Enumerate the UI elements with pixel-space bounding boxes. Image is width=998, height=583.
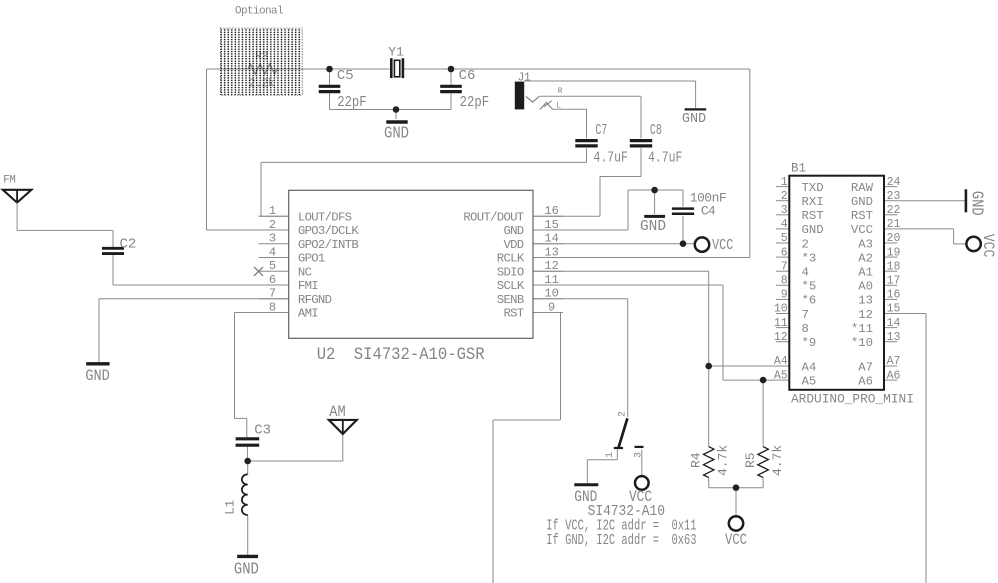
svg-text:2: 2 (618, 411, 629, 417)
svg-text:C8: C8 (650, 123, 662, 139)
svg-text:8: 8 (802, 322, 809, 336)
svg-text:5: 5 (269, 259, 276, 273)
svg-text:14: 14 (544, 232, 558, 246)
svg-text:A3: A3 (858, 237, 873, 251)
svg-text:6: 6 (269, 273, 276, 287)
svg-text:VCC: VCC (978, 234, 995, 258)
svg-text:R5: R5 (743, 452, 758, 468)
svg-text:U2: U2 (317, 345, 336, 365)
svg-text:ARDUINO_PRO_MINI: ARDUINO_PRO_MINI (791, 392, 914, 407)
svg-text:7: 7 (802, 308, 809, 322)
svg-text:16: 16 (544, 204, 558, 218)
svg-text:22pF: 22pF (460, 95, 489, 111)
svg-text:AM: AM (329, 404, 345, 421)
svg-text:GPO3/DCLK: GPO3/DCLK (298, 224, 359, 238)
svg-text:17: 17 (887, 275, 901, 288)
svg-text:5: 5 (781, 232, 788, 245)
svg-text:A6: A6 (858, 374, 873, 388)
svg-text:FM: FM (3, 174, 15, 186)
svg-text:3: 3 (781, 204, 788, 217)
svg-text:4.7uF: 4.7uF (594, 149, 628, 166)
svg-text:*10: *10 (851, 336, 873, 350)
svg-text:15: 15 (544, 218, 558, 232)
svg-text:AMI: AMI (298, 307, 318, 321)
svg-text:GND: GND (802, 223, 824, 237)
svg-text:4: 4 (781, 218, 788, 231)
svg-text:L1: L1 (224, 500, 238, 515)
svg-text:GND: GND (967, 191, 986, 216)
svg-text:GND: GND (384, 123, 409, 143)
svg-text:FMI: FMI (298, 279, 318, 293)
svg-text:21: 21 (887, 218, 901, 231)
svg-text:13: 13 (544, 245, 558, 259)
svg-text:A6: A6 (887, 369, 901, 382)
svg-text:GND: GND (851, 195, 873, 209)
svg-text:R: R (558, 87, 563, 96)
svg-text:A2: A2 (858, 251, 873, 265)
svg-text:GND: GND (85, 368, 110, 385)
svg-text:RCLK: RCLK (497, 252, 525, 266)
svg-text:16: 16 (887, 289, 901, 302)
svg-text:SDIO: SDIO (497, 265, 524, 279)
svg-text:GND: GND (234, 559, 259, 578)
svg-text:A4: A4 (774, 355, 788, 368)
svg-text:1: 1 (269, 204, 276, 218)
svg-text:8: 8 (269, 300, 276, 314)
svg-text:1: 1 (605, 452, 616, 458)
svg-text:3: 3 (634, 452, 645, 458)
svg-text:4.7k: 4.7k (770, 445, 785, 476)
svg-text:7: 7 (269, 287, 276, 301)
svg-text:SCLK: SCLK (497, 279, 525, 293)
svg-text:1: 1 (781, 176, 788, 189)
svg-text:6: 6 (781, 246, 788, 259)
svg-text:13: 13 (887, 331, 901, 344)
svg-text:*3: *3 (802, 251, 817, 265)
svg-text:A7: A7 (858, 360, 873, 374)
svg-text:GND: GND (640, 219, 666, 235)
svg-text:8: 8 (781, 275, 788, 288)
svg-text:11: 11 (774, 317, 788, 330)
svg-text:C6: C6 (459, 68, 476, 84)
svg-text:20: 20 (887, 232, 901, 245)
svg-text:19: 19 (887, 246, 901, 259)
svg-text:22pF: 22pF (337, 95, 366, 111)
svg-text:*6: *6 (802, 294, 817, 308)
svg-text:VCC: VCC (851, 223, 873, 237)
svg-text:VCC: VCC (725, 532, 747, 550)
svg-text:Optional: Optional (235, 6, 283, 18)
svg-text:TXD: TXD (802, 181, 824, 195)
svg-text:NC: NC (298, 265, 312, 279)
svg-text:If GND, I2C addr = 0x63: If GND, I2C addr = 0x63 (546, 531, 696, 548)
svg-text:2: 2 (802, 237, 809, 251)
svg-text:A5: A5 (802, 374, 817, 388)
svg-text:RST: RST (503, 307, 523, 321)
svg-text:A0: A0 (858, 280, 873, 294)
svg-text:C3: C3 (254, 423, 271, 439)
svg-text:2: 2 (269, 218, 276, 232)
svg-text:A5: A5 (774, 369, 788, 382)
svg-text:C4: C4 (701, 204, 716, 219)
svg-text:C7: C7 (595, 123, 607, 139)
svg-text:J1: J1 (518, 72, 531, 85)
svg-text:RST: RST (851, 209, 873, 223)
svg-text:GND: GND (682, 112, 706, 127)
svg-text:4: 4 (269, 245, 276, 259)
svg-text:VDD: VDD (503, 238, 523, 252)
svg-text:ROUT/DOUT: ROUT/DOUT (463, 210, 523, 224)
svg-text:B1: B1 (791, 162, 806, 176)
svg-text:VCC: VCC (712, 237, 733, 253)
svg-text:12: 12 (858, 308, 873, 322)
svg-text:9: 9 (781, 289, 788, 302)
svg-text:9: 9 (548, 300, 555, 314)
svg-text:10: 10 (544, 287, 558, 301)
svg-text:13: 13 (858, 294, 873, 308)
svg-text:RAW: RAW (851, 181, 874, 195)
svg-text:GPO2/INTB: GPO2/INTB (298, 238, 358, 252)
svg-text:RST: RST (802, 209, 824, 223)
svg-text:SENB: SENB (497, 293, 524, 307)
svg-text:14: 14 (887, 317, 901, 330)
svg-text:*9: *9 (802, 336, 817, 350)
svg-text:Y1: Y1 (388, 45, 404, 60)
svg-text:3: 3 (269, 232, 276, 246)
svg-text:A4: A4 (802, 360, 817, 374)
svg-text:2: 2 (781, 190, 788, 203)
svg-text:RXI: RXI (802, 195, 824, 209)
svg-text:10: 10 (774, 303, 788, 316)
svg-text:*5: *5 (802, 280, 817, 294)
svg-text:4.7k: 4.7k (716, 445, 731, 476)
svg-text:24: 24 (887, 176, 901, 189)
svg-text:LOUT/DFS: LOUT/DFS (298, 210, 352, 224)
svg-text:A7: A7 (887, 355, 901, 368)
svg-text:12: 12 (544, 259, 558, 273)
svg-text:GND: GND (503, 224, 523, 238)
svg-text:R4: R4 (689, 452, 704, 468)
svg-text:4.7uF: 4.7uF (648, 149, 682, 166)
svg-text:SI4732-A10-GSR: SI4732-A10-GSR (354, 345, 485, 365)
svg-text:A1: A1 (858, 266, 873, 280)
svg-text:12: 12 (774, 331, 788, 344)
svg-text:C5: C5 (337, 68, 354, 84)
svg-text:RFGND: RFGND (298, 293, 332, 307)
svg-text:*11: *11 (851, 322, 873, 336)
svg-text:11: 11 (544, 273, 558, 287)
svg-text:18: 18 (887, 260, 901, 273)
svg-text:15: 15 (887, 303, 901, 316)
svg-text:23: 23 (887, 190, 901, 203)
svg-text:7: 7 (781, 260, 788, 273)
svg-text:C2: C2 (120, 236, 137, 252)
svg-text:22: 22 (887, 204, 901, 217)
svg-text:L: L (556, 101, 561, 110)
svg-text:GPO1: GPO1 (298, 252, 325, 266)
svg-text:4: 4 (802, 266, 809, 280)
